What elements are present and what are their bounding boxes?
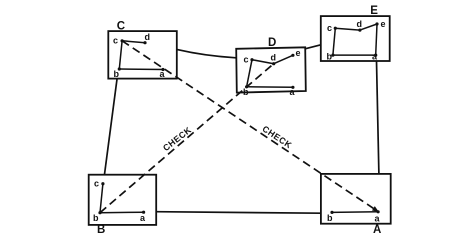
node point labels box B (93, 179, 146, 224)
svg-text:E: E (370, 5, 378, 17)
node station box A (321, 174, 391, 224)
wire rays inside box B (100, 184, 144, 213)
svg-text:d: d (271, 53, 277, 63)
node station box C (108, 31, 177, 79)
svg-text:c: c (113, 36, 118, 46)
wire C to D (traverse line) (177, 50, 236, 58)
svg-text:C: C (117, 20, 125, 32)
svg-text:c: c (327, 23, 332, 33)
node dots in box A (330, 210, 379, 214)
wire dashed check line B to D (100, 64, 274, 213)
svg-text:A: A (373, 224, 381, 236)
node point labels box A (327, 213, 381, 224)
wire B to A (traverse line) (156, 212, 321, 214)
svg-text:b: b (114, 69, 120, 79)
node station box D (236, 47, 306, 92)
svg-text:d: d (357, 19, 363, 29)
svg-text:CHECK: CHECK (161, 124, 194, 153)
arrowhead at point a of box A (372, 206, 379, 212)
wire D to E (traverse line) (305, 45, 321, 49)
node dots in box C (118, 39, 165, 71)
wire dashed check line C to A (122, 41, 373, 209)
node station box E (321, 16, 390, 61)
wire B to C (traverse line) (105, 79, 118, 174)
node station box B (89, 175, 157, 225)
svg-text:b: b (327, 51, 333, 61)
wire rays inside box C (119, 41, 163, 70)
wire E to A (traverse line) (377, 61, 379, 174)
svg-text:D: D (268, 37, 276, 49)
svg-text:b: b (327, 213, 333, 223)
node dots in box D (245, 54, 295, 89)
svg-text:c: c (94, 179, 99, 189)
svg-text:e: e (381, 19, 386, 29)
svg-text:d: d (145, 32, 151, 42)
wire ray inside box A (332, 211, 378, 214)
node point labels box D (243, 48, 301, 97)
node point labels box C (113, 32, 166, 79)
svg-text:c: c (244, 55, 249, 65)
node dots in box E (331, 22, 378, 56)
wire rays inside box D (247, 55, 293, 87)
wire rays inside box E (333, 24, 377, 55)
svg-text:B: B (97, 224, 105, 236)
svg-text:e: e (296, 48, 301, 58)
node dots in box B (98, 182, 145, 214)
node point labels box E (327, 19, 386, 61)
svg-text:b: b (243, 87, 249, 97)
svg-text:b: b (93, 213, 99, 223)
